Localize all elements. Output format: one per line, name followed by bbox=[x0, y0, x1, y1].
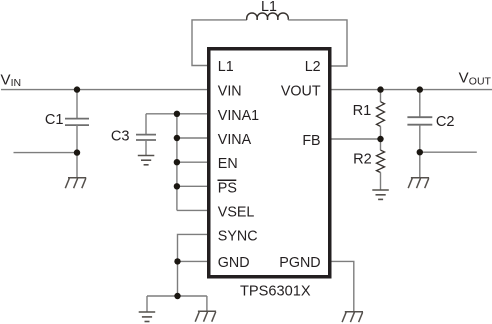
junction dot SYNC-bus/GND bbox=[174, 258, 180, 264]
wire L1 pin loop (left side) bbox=[192, 20, 247, 66]
svg-text:VIN: VIN bbox=[218, 84, 242, 100]
svg-text:VSEL: VSEL bbox=[218, 204, 255, 220]
ground earth below C3 bbox=[138, 156, 155, 165]
wire C3 vertical drop bbox=[145, 114, 147, 135]
inductor L1 bbox=[247, 13, 289, 20]
capacitor C1 bbox=[65, 119, 89, 126]
wire VOUT output rail bbox=[331, 89, 492, 91]
svg-text:FB: FB bbox=[302, 133, 320, 149]
junction dot bus/EN bbox=[174, 159, 180, 165]
svg-text:IN: IN bbox=[11, 77, 22, 89]
wire VIN input rail bbox=[1, 89, 207, 91]
svg-text:V: V bbox=[1, 72, 11, 89]
resistor R2 bbox=[377, 150, 385, 172]
junction dot bus/PS bbox=[174, 183, 180, 189]
wire SYNC pin to ground bus bbox=[178, 234, 208, 296]
ground earth bottom-left bbox=[139, 312, 156, 322]
svg-text:L2: L2 bbox=[305, 59, 321, 75]
junction dot FB/R1/R2 bbox=[377, 136, 383, 142]
svg-text:V: V bbox=[459, 70, 469, 87]
op-amp/IC U1 TPS6301X body bbox=[209, 49, 330, 277]
wire C1 top (VIN to C1) bbox=[76, 90, 78, 119]
wire FB pin to divider bbox=[331, 138, 381, 140]
wire bottom ground tee bbox=[147, 295, 207, 297]
wire right ground return rail bbox=[420, 151, 477, 153]
ground earth below R2 bbox=[372, 190, 389, 199]
capacitor C2 bbox=[407, 117, 432, 125]
svg-text:C2: C2 bbox=[436, 114, 455, 130]
overline for PS bbox=[218, 179, 237, 181]
svg-text:L1: L1 bbox=[261, 0, 277, 15]
wire PGND pin to ground bbox=[331, 261, 354, 311]
wire to chassis ground bottom-center bbox=[206, 296, 208, 311]
wire VSEL pin stub bbox=[177, 209, 207, 211]
wire EN pin stub bbox=[177, 161, 207, 163]
junction dot C2/ground rail bbox=[417, 149, 423, 155]
junction dot bus/VINA bbox=[174, 135, 180, 141]
capacitor C3 bbox=[136, 135, 156, 140]
wire C1 bottom to ground rail bbox=[76, 125, 78, 178]
svg-text:C1: C1 bbox=[45, 112, 64, 128]
junction dot VOUT/R1 bbox=[377, 86, 383, 92]
wire GND pin stub bbox=[178, 260, 208, 262]
junction dot bottom ground tee bbox=[174, 293, 180, 299]
ground chassis bottom-center bbox=[195, 311, 216, 321]
svg-text:R1: R1 bbox=[353, 103, 372, 119]
ground chassis below C1 bbox=[65, 178, 86, 188]
wire to earth ground bottom-left bbox=[146, 296, 148, 312]
wire VINA pin stub bbox=[177, 137, 207, 139]
wire VINA1 pin to C3 and bus bbox=[146, 113, 207, 115]
svg-text:L1: L1 bbox=[218, 59, 234, 75]
svg-text:OUT: OUT bbox=[469, 76, 492, 88]
junction dot VIN/C1 bbox=[74, 86, 80, 92]
wire R1 top lead bbox=[380, 90, 382, 102]
svg-text:PGND: PGND bbox=[279, 255, 320, 271]
node VOUT label bbox=[459, 70, 492, 88]
svg-text:R2: R2 bbox=[353, 152, 372, 168]
wire R2 top lead bbox=[380, 139, 382, 150]
wire R2 bottom lead bbox=[380, 172, 382, 190]
wire C3 bottom to ground bbox=[145, 140, 147, 155]
wire R1 bottom lead bbox=[380, 126, 382, 139]
wire L2 pin loop (right side) bbox=[288, 20, 347, 66]
svg-text:C3: C3 bbox=[111, 128, 130, 144]
svg-text:EN: EN bbox=[218, 156, 238, 172]
svg-text:VINA: VINA bbox=[218, 132, 252, 148]
node VIN label bbox=[1, 72, 22, 90]
svg-text:GND: GND bbox=[218, 255, 250, 271]
junction dot bus/VINA1 bbox=[174, 111, 180, 117]
svg-text:VOUT: VOUT bbox=[281, 84, 321, 100]
junction dot VOUT/C2 bbox=[417, 86, 423, 92]
wire C2 bottom lead bbox=[419, 125, 421, 178]
ground chassis below C2 bbox=[408, 178, 429, 188]
wire C2 top lead bbox=[419, 90, 421, 118]
wire PS pin stub bbox=[177, 185, 207, 187]
svg-text:PS: PS bbox=[218, 180, 237, 196]
junction dot C1/ground rail bbox=[74, 149, 80, 155]
resistor R1 bbox=[377, 102, 385, 127]
ground chassis below PGND bbox=[342, 312, 363, 322]
svg-text:TPS6301X: TPS6301X bbox=[240, 284, 311, 300]
svg-text:SYNC: SYNC bbox=[218, 228, 258, 244]
wire analog bus vertical (VINA1-VSEL) bbox=[176, 114, 178, 211]
svg-text:VINA1: VINA1 bbox=[218, 108, 259, 124]
wire left ground return rail bbox=[14, 152, 78, 154]
